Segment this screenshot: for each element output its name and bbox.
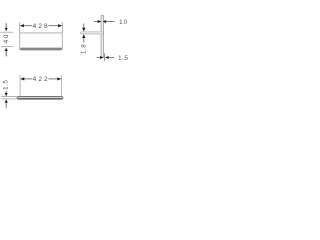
dim 1.5 bottom top arrowhead (down) — [5, 93, 8, 96]
dim 1.8 top arrowhead (down) — [82, 28, 85, 32]
shelf plate side section — [81, 32, 104, 34]
dim 428 extension line right — [61, 22, 63, 33]
dim 428 right arrowhead — [58, 24, 62, 27]
svg-text:40: 40 — [3, 33, 10, 43]
dim 10 right arrowhead (left-pointing) — [103, 20, 107, 23]
dim 1.5 bottom bottom extension line — [1, 98, 17, 100]
dim 1.5 side left tail — [97, 57, 101, 59]
dim 1.5 bottom bottom tail — [5, 103, 7, 109]
dim 1.8 bottom arrowhead (up) — [82, 34, 85, 38]
shelf front outline — [20, 33, 63, 50]
dim 1.8 top tail — [83, 24, 85, 29]
dim 422 line left segment — [24, 78, 32, 80]
dim 422 right arrowhead — [57, 77, 61, 80]
dim 40 top arrowhead (down) — [5, 28, 8, 31]
shelf front bottom thick edge — [21, 48, 61, 50]
dim 40 bottom extension line — [1, 46, 13, 48]
rail profile (wall rail side section) — [101, 15, 104, 57]
dim 422 left arrowhead — [20, 77, 24, 80]
dim 422 extension line left — [19, 75, 21, 96]
svg-text:10: 10 — [119, 19, 128, 26]
dim 428 extension line left — [19, 22, 21, 33]
dim 1.5 bottom top extension line — [1, 96, 17, 98]
svg-text:1.5: 1.5 — [118, 55, 128, 62]
dim 40 bottom arrowhead (up) — [5, 48, 8, 51]
dim 1.5 side extension line — [103, 53, 105, 61]
dim 40 top extension line — [0, 31, 13, 33]
dim 422 extension line right — [61, 75, 63, 97]
dim 40 bottom arrow tail — [5, 51, 7, 56]
dim 1.5 side left arrowhead (right-pointing) — [100, 56, 104, 59]
dim 1.8 bottom tail — [83, 38, 85, 43]
background — [0, 0, 130, 130]
dim 1.5 bottom top tail — [5, 91, 7, 94]
dim 10 right tail — [106, 21, 114, 23]
dim 428 line right segment — [48, 25, 58, 27]
svg-text:1.5: 1.5 — [3, 79, 10, 89]
svg-text:428: 428 — [33, 23, 50, 30]
dim 10 left tail — [94, 21, 98, 23]
dim 40 top arrow tail — [5, 23, 7, 28]
dim 422 line right segment — [48, 78, 57, 80]
svg-text:422: 422 — [33, 76, 50, 83]
dim 1.5 bottom bottom arrowhead (up) — [5, 99, 8, 102]
dim 1.5 side right tail — [109, 57, 115, 59]
dim 428 left arrowhead — [20, 24, 24, 27]
svg-text:1.8: 1.8 — [81, 44, 88, 54]
shelf plate bottom view bar lower accent — [19, 98, 62, 100]
dim 1.5 side right arrowhead (left-pointing) — [105, 56, 109, 59]
shelf plate bottom view bar — [17, 97, 63, 100]
dim 428 line left segment — [24, 25, 32, 27]
dim 10 left arrowhead (right-pointing) — [98, 20, 102, 23]
